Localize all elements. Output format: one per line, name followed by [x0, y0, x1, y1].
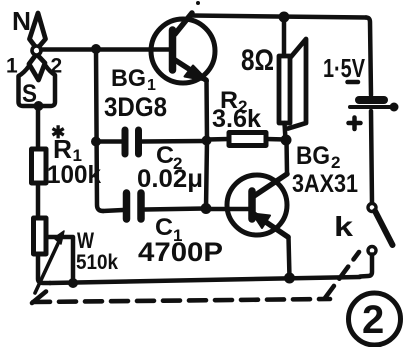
wire node to BG2 collector: [284, 140, 289, 173]
svg-text:R: R: [53, 134, 72, 164]
svg-text:N: N: [12, 6, 31, 36]
wire pivot to BG1 base: [41, 47, 169, 52]
stray ink speck: [196, 1, 200, 5]
wire speaker to R2 node: [285, 123, 286, 140]
svg-text:8Ω: 8Ω: [241, 44, 274, 77]
svg-text:3.6k: 3.6k: [212, 105, 261, 133]
node sensor bottom: [34, 101, 44, 111]
wire switch to rail: [360, 255, 372, 277]
node emitter-rail: [284, 273, 295, 284]
wire BG2 emitter to rail: [289, 237, 290, 278]
resistor R1: [32, 149, 47, 183]
wire R1 to W: [36, 183, 41, 218]
label BG1: [111, 65, 156, 94]
capacitor C1: [103, 193, 205, 219]
wire BG2 base lead: [206, 207, 252, 212]
node R2 right: [281, 135, 292, 146]
label C2: [156, 142, 182, 173]
svg-text:0.02μ: 0.02μ: [137, 165, 203, 193]
svg-text:2: 2: [362, 298, 384, 342]
transistor BG2: [227, 174, 288, 237]
wire speaker drop: [282, 17, 287, 56]
wire right rail upper: [366, 18, 371, 96]
switch k: [368, 204, 393, 255]
svg-text:4700P: 4700P: [138, 237, 223, 267]
svg-text:3AX31: 3AX31: [292, 170, 358, 198]
potentiometer W body: [34, 218, 47, 254]
battery 1.5V: [350, 100, 399, 112]
node base junction: [91, 44, 101, 54]
wire sensor to R1: [36, 106, 41, 149]
wire right rail lower: [371, 111, 372, 203]
wire W bottom to rail: [38, 254, 50, 283]
contact 1 (left): [19, 66, 39, 106]
mechanical linkage dashed: [32, 252, 359, 303]
node emitter-C2-R2: [202, 136, 212, 146]
svg-text:1·5V: 1·5V: [323, 53, 366, 83]
node speaker tap: [279, 12, 290, 23]
svg-text:1: 1: [6, 55, 18, 78]
label R1: [53, 134, 82, 165]
wire ground rail: [50, 277, 360, 283]
label C1: [155, 214, 182, 245]
node C1-base: [201, 203, 212, 214]
label R2: [220, 87, 247, 116]
label minus: [348, 80, 359, 85]
svg-text:BG: BG: [111, 65, 146, 92]
wire top rail: [192, 16, 366, 18]
speaker 8ohm: [279, 39, 306, 129]
svg-text:k: k: [334, 211, 354, 242]
label plus: [349, 118, 361, 130]
wire wiper to rail: [46, 237, 73, 283]
potentiometer W arrow: [35, 231, 64, 293]
svg-text:510k: 510k: [76, 251, 118, 274]
node wiper-rail: [68, 278, 78, 288]
compass needle sensor (magnetic needle): [29, 13, 46, 80]
svg-text:BG: BG: [296, 142, 330, 170]
resistor R2: [207, 133, 286, 146]
svg-text:W: W: [77, 228, 94, 253]
label BG2: [296, 142, 340, 172]
transistor BG1: [151, 13, 215, 83]
contact 2 (right): [40, 65, 55, 106]
svg-text:2: 2: [51, 55, 63, 78]
svg-text:3DG8: 3DG8: [104, 92, 167, 122]
capacitor C2: [96, 130, 205, 154]
wire left vertical bus: [96, 49, 103, 211]
wire BG1 emitter bus: [206, 80, 207, 209]
figure number 2: [349, 293, 401, 345]
svg-text:100k: 100k: [47, 161, 101, 189]
node C2 left: [91, 137, 101, 147]
